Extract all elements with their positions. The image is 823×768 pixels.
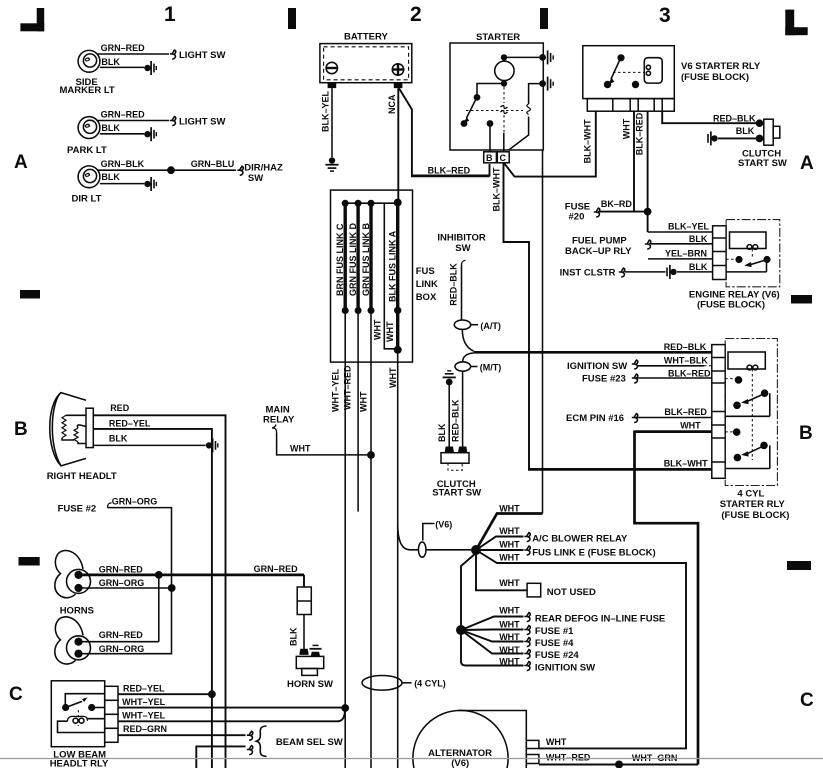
svg-text:C: C [500,153,507,163]
svg-text:C: C [9,684,23,705]
svg-text:BLK–WHT: BLK–WHT [583,119,593,163]
svg-text:WHT: WHT [388,367,398,388]
svg-text:GRN–ORG: GRN–ORG [99,644,145,654]
svg-text:HEADLT RLY: HEADLT RLY [50,759,109,768]
svg-text:RED–BLK: RED–BLK [450,399,460,442]
svg-text:DIR LT: DIR LT [72,194,102,205]
svg-text:ECM PIN #16: ECM PIN #16 [566,413,624,424]
svg-text:LINK: LINK [416,279,438,290]
svg-text:GRN–RED: GRN–RED [99,630,144,640]
svg-text:BLK–WHT: BLK–WHT [664,459,708,469]
svg-text:FUSE #23: FUSE #23 [582,374,626,385]
svg-text:GRN–RED: GRN–RED [101,43,146,53]
svg-text:WHT: WHT [499,645,520,655]
svg-text:(M/T): (M/T) [480,363,502,373]
svg-text:WHT–YEL: WHT–YEL [122,710,166,720]
svg-text:WHT–RED: WHT–RED [343,365,353,410]
svg-text:HORN SW: HORN SW [287,679,333,690]
svg-text:INHIBITOR: INHIBITOR [437,233,486,244]
svg-text:BLK–YEL: BLK–YEL [668,222,710,232]
svg-text:BLK: BLK [101,57,120,67]
svg-text:RELAY: RELAY [263,415,295,426]
svg-text:BLK: BLK [101,123,120,133]
svg-text:LIGHT SW: LIGHT SW [179,50,225,61]
svg-text:PARK LT: PARK LT [67,145,107,156]
svg-text:BLK–RED: BLK–RED [668,369,711,379]
svg-text:GRN–ORG: GRN–ORG [99,578,145,588]
svg-text:BACK–UP RLY: BACK–UP RLY [565,246,632,257]
svg-text:WHT: WHT [546,737,567,747]
svg-text:BK–RD: BK–RD [601,199,633,209]
svg-text:(FUSE BLOCK): (FUSE BLOCK) [681,72,749,83]
svg-text:(V6): (V6) [435,520,452,530]
svg-text:BLK–RED: BLK–RED [664,407,707,417]
svg-text:WHT: WHT [622,118,632,139]
svg-text:WHT: WHT [499,620,520,630]
svg-text:WHT: WHT [499,553,520,563]
svg-text:BLK–RED: BLK–RED [635,112,645,155]
svg-text:FUSE #4: FUSE #4 [535,638,574,649]
svg-text:BEAM SEL SW: BEAM SEL SW [276,737,343,748]
svg-text:GRN–RED: GRN–RED [99,564,144,574]
svg-text:FUS: FUS [416,266,435,277]
svg-text:START SW: START SW [432,487,481,498]
svg-text:WHT: WHT [499,632,520,642]
svg-text:BLK: BLK [101,172,120,182]
svg-text:LIGHT SW: LIGHT SW [179,117,225,128]
svg-text:WHT: WHT [499,540,520,550]
svg-text:RED–BLK: RED–BLK [664,342,707,352]
svg-text:WHT–YEL: WHT–YEL [330,368,340,412]
svg-text:B: B [799,423,813,444]
svg-text:GRN–RED: GRN–RED [101,109,146,119]
svg-text:GRN–RED: GRN–RED [254,564,299,574]
svg-text:INST CLSTR: INST CLSTR [560,268,616,279]
svg-text:DIR/HAZ: DIR/HAZ [244,163,283,174]
svg-text:STARTER: STARTER [476,32,520,43]
svg-text:WHT: WHT [385,321,395,342]
svg-text:RED–YEL: RED–YEL [109,419,151,429]
svg-text:RED–BLK: RED–BLK [713,113,756,123]
svg-text:START SW: START SW [738,158,787,169]
svg-text:1: 1 [164,3,176,26]
svg-text:SW: SW [248,173,263,184]
svg-text:GRN–ORG: GRN–ORG [112,496,158,506]
svg-text:SW: SW [455,243,470,254]
svg-text:A: A [14,152,28,173]
svg-text:YEL–BRN: YEL–BRN [665,248,707,258]
svg-text:BLK: BLK [736,126,755,136]
svg-text:RED–GRN: RED–GRN [123,724,167,734]
svg-text:BLK: BLK [289,627,299,646]
svg-text:IGNITION SW: IGNITION SW [535,663,595,674]
svg-text:V6 STARTER RLY: V6 STARTER RLY [681,61,761,72]
svg-text:BLK–RED: BLK–RED [428,166,471,176]
svg-text:FUS LINK E (FUSE BLOCK): FUS LINK E (FUSE BLOCK) [532,547,656,558]
svg-text:REAR DEFOG IN–LINE FUSE: REAR DEFOG IN–LINE FUSE [535,614,665,625]
svg-text:4 CYL: 4 CYL [737,489,764,500]
svg-text:(4 CYL): (4 CYL) [414,679,446,689]
svg-text:GRN FUS LINK B: GRN FUS LINK B [361,223,371,296]
svg-text:BLK: BLK [689,234,708,244]
svg-text:BLK: BLK [689,262,708,272]
svg-text:RED–YEL: RED–YEL [123,683,165,693]
svg-text:FUSE #1: FUSE #1 [535,626,574,637]
svg-text:WHT: WHT [499,657,520,667]
svg-text:WHT: WHT [499,578,520,588]
svg-text:HORNS: HORNS [60,606,94,617]
svg-text:RIGHT HEADLT: RIGHT HEADLT [47,471,117,482]
svg-text:BLK–YEL: BLK–YEL [321,90,331,132]
svg-text:RED–BLK: RED–BLK [449,263,459,306]
svg-text:WHT: WHT [359,391,369,412]
svg-text:FUSE #24: FUSE #24 [535,650,580,661]
svg-text:WHT: WHT [499,526,520,536]
svg-text:BLK FUS LINK A: BLK FUS LINK A [388,230,398,302]
svg-text:(V6): (V6) [451,758,469,768]
svg-text:WHT–BLK: WHT–BLK [664,355,708,365]
svg-text:BLK: BLK [437,423,447,442]
svg-text:BOX: BOX [416,292,437,303]
svg-text:GRN–BLU: GRN–BLU [191,159,235,169]
svg-text:(FUSE BLOCK): (FUSE BLOCK) [697,300,765,311]
svg-text:WHT: WHT [499,606,520,616]
svg-text:3: 3 [659,4,671,27]
svg-text:BATTERY: BATTERY [344,32,388,43]
svg-text:FUSE #2: FUSE #2 [58,504,97,515]
svg-text:RED: RED [110,403,130,413]
svg-text:WHT: WHT [499,503,520,513]
svg-text:(A/T): (A/T) [480,321,501,331]
svg-text:FUEL PUMP: FUEL PUMP [572,236,627,247]
svg-text:2: 2 [410,3,422,26]
svg-text:#20: #20 [569,212,585,223]
svg-text:IGNITION SW: IGNITION SW [567,361,627,372]
svg-text:B: B [14,419,28,440]
svg-text:GRN–BLK: GRN–BLK [101,159,145,169]
svg-text:NOT USED: NOT USED [547,587,596,598]
svg-text:WHT: WHT [373,319,383,340]
svg-text:WHT: WHT [680,420,701,430]
svg-text:BLK: BLK [109,433,128,443]
svg-text:GRN FUS LINK D: GRN FUS LINK D [348,223,358,296]
svg-text:A/C BLOWER RELAY: A/C BLOWER RELAY [532,533,628,544]
svg-text:A: A [800,153,814,174]
svg-text:STARTER RLY: STARTER RLY [720,499,786,510]
svg-text:(FUSE BLOCK): (FUSE BLOCK) [721,510,789,521]
svg-text:WHT: WHT [290,443,311,453]
svg-text:BRN FUS LINK C: BRN FUS LINK C [335,223,345,296]
svg-text:C: C [800,690,814,711]
svg-text:NCA: NCA [387,94,397,114]
svg-text:MARKER LT: MARKER LT [60,85,115,96]
svg-text:BLK–WHT: BLK–WHT [492,167,502,211]
svg-text:WHT–RED: WHT–RED [546,753,591,763]
svg-text:B: B [486,153,493,163]
svg-text:WHT–YEL: WHT–YEL [122,697,166,707]
